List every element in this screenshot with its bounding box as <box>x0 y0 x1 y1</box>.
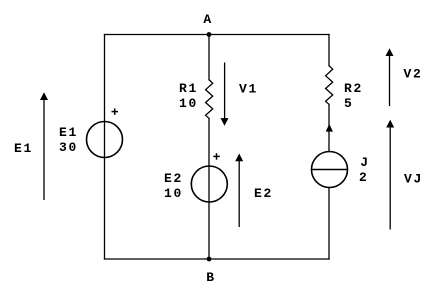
arrow V1 (voltage across R1, pointing down) <box>221 63 229 126</box>
svg-text:5: 5 <box>344 96 354 111</box>
arrow V2 (voltage across R2, pointing up) <box>386 48 394 106</box>
svg-text:VJ: VJ <box>404 172 423 187</box>
arrow VJ (voltage across J, pointing up) <box>386 120 394 230</box>
R2 value label <box>344 81 363 111</box>
arrow E2 (source voltage, pointing up) <box>235 154 243 228</box>
node B <box>206 257 216 285</box>
node A <box>203 12 213 37</box>
current source J <box>312 152 348 188</box>
wire top (node A rail) <box>105 34 330 36</box>
wire middle upper <box>208 35 210 80</box>
svg-text:E2: E2 <box>254 186 273 201</box>
E1 arrow label <box>14 141 33 156</box>
svg-text:10: 10 <box>179 96 198 111</box>
wire middle lower <box>208 118 210 259</box>
wire right middle <box>328 104 330 151</box>
voltage source E2 <box>191 166 227 202</box>
voltage source E1 <box>87 122 123 158</box>
J value label <box>359 155 370 185</box>
V2 arrow label <box>404 67 423 82</box>
svg-text:V2: V2 <box>404 67 423 82</box>
R1 value label <box>179 81 198 111</box>
current source J direction arrowhead <box>326 124 333 132</box>
svg-text:E1: E1 <box>14 141 33 156</box>
wire right lower <box>328 188 330 259</box>
E2 value label <box>164 171 183 201</box>
svg-text:E2: E2 <box>164 171 183 186</box>
E1 value label <box>59 125 78 155</box>
svg-text:A: A <box>203 12 213 27</box>
svg-text:B: B <box>206 270 216 285</box>
resistor R2 <box>326 66 333 105</box>
svg-text:30: 30 <box>59 140 78 155</box>
svg-text:V1: V1 <box>239 82 258 97</box>
svg-text:2: 2 <box>359 170 369 185</box>
svg-text:E1: E1 <box>59 125 78 140</box>
resistor R1 <box>206 80 213 119</box>
svg-text:10: 10 <box>164 186 183 201</box>
VJ arrow label <box>404 172 423 187</box>
wire bottom (node B rail) <box>105 258 330 260</box>
arrow E1 (branch voltage, pointing up) <box>40 92 48 200</box>
wire right upper <box>328 35 330 66</box>
svg-text:R1: R1 <box>179 81 198 96</box>
svg-text:J: J <box>360 155 370 170</box>
svg-text:R2: R2 <box>344 81 363 96</box>
E2 polarity + <box>213 153 220 160</box>
E1 polarity + <box>112 108 119 115</box>
V1 arrow label <box>239 82 258 97</box>
E2 arrow label <box>254 186 273 201</box>
wire left branch <box>104 35 106 260</box>
